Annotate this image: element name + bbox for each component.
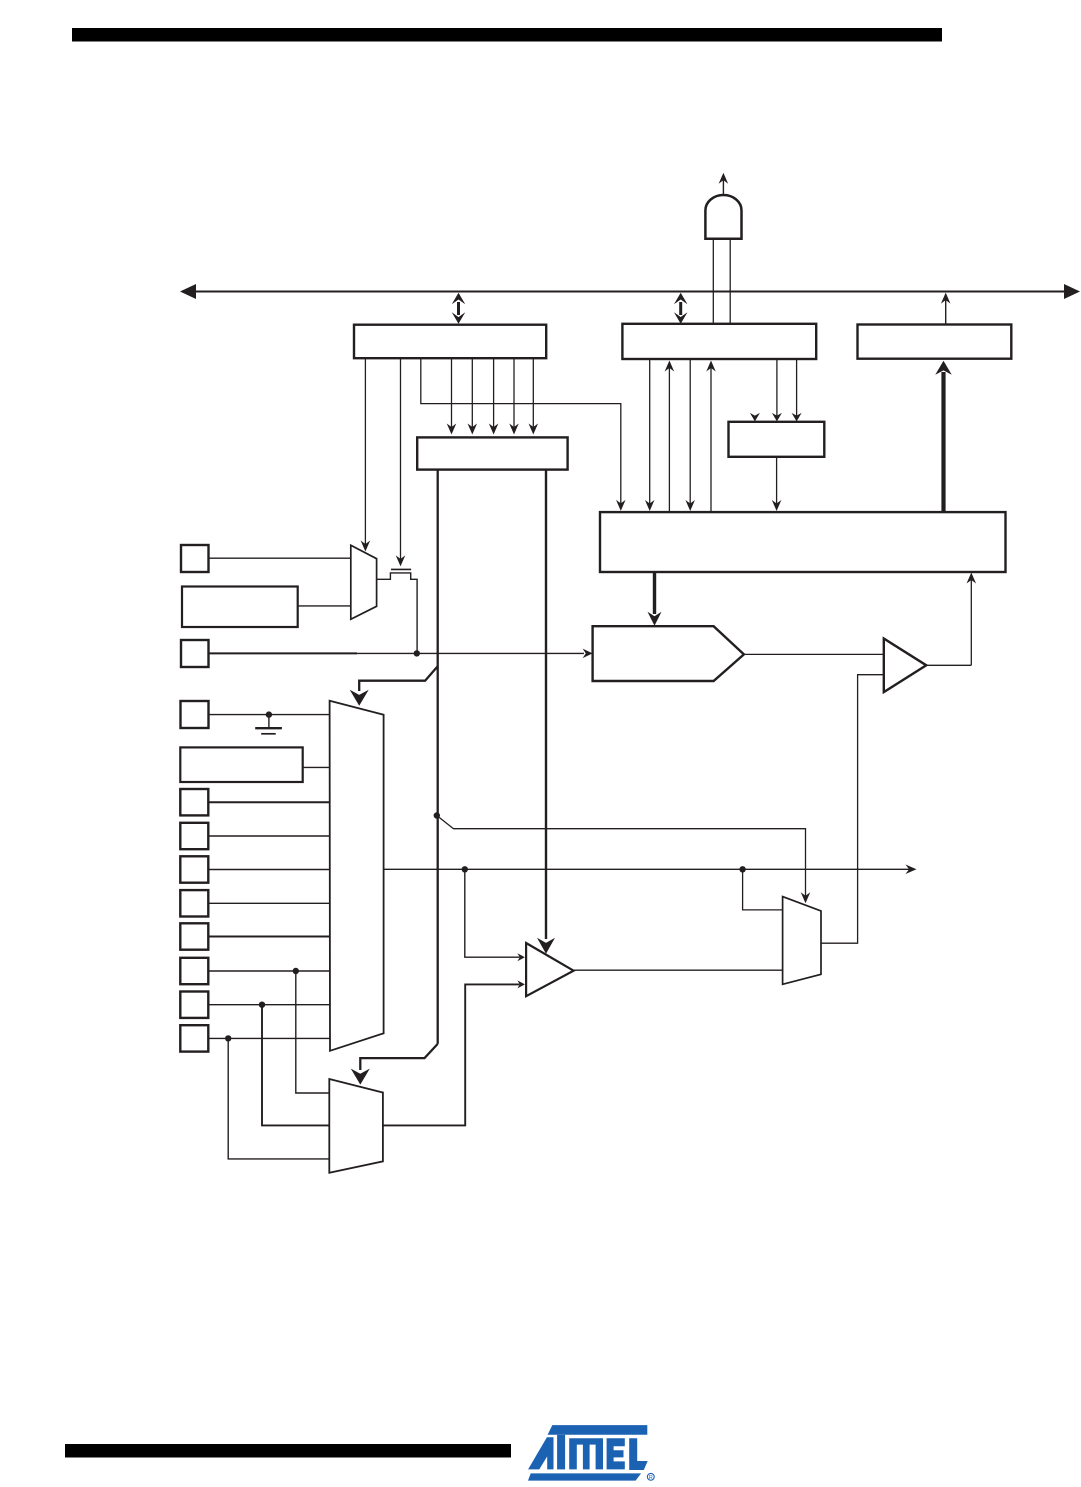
block bandgap reference [180,747,302,782]
mux negative input [329,1079,383,1173]
mux positive input [330,701,384,1051]
wire ADIF input to AND gate [712,239,714,324]
bus interface double arrow ADCSRA [674,293,688,324]
junction AGND ground [266,711,272,717]
wire mux output to gain amplifier positive input [465,869,525,961]
wire REFS1 ADMUX to reference mux [361,358,371,551]
wire gain selection to gain amplifier [537,470,555,954]
Atmel logo [528,1425,654,1481]
wire conversion result thick arrow to data register [935,361,952,512]
wire channel selection bus [437,470,439,1044]
op-amp gain amplifier [526,943,574,996]
ground symbol [255,715,282,734]
wire ADIF conversion logic to ADCSRA [706,361,716,513]
wire ADC1 to positive input mux [208,1004,329,1006]
wire ADC5 to positive input mux [208,869,329,871]
bus interface double arrow ADMUX [452,293,466,324]
wire bandgap reference to positive input mux [303,766,330,768]
wire AGND to positive input mux [209,714,330,716]
wire internal reference to reference mux [298,605,351,607]
wire select line to sample selection mux [437,816,810,904]
header rule bar [72,28,942,42]
pin AGND [181,701,209,728]
wire ADC multiplexer output [384,865,917,875]
wire ADPS ADCSRA to prescaler right [792,359,802,421]
wire channel selection branch to negative input mux [351,1044,438,1085]
pin ADC5 [180,856,208,882]
pin ADC7 [180,789,208,815]
svg-text:R: R [649,1475,653,1481]
wire ADSC ADCSRA to conversion logic [685,359,695,511]
mux single ended or differential selection [783,897,821,985]
wire ADPS ADCSRA to prescaler left [772,359,782,421]
junction AREF pass gate [414,650,420,656]
wire negative mux output to gain amplifier negative input [383,980,525,1125]
wire status conversion logic to ADCSRA [665,361,675,513]
junction mux output to gain amplifier [462,866,468,872]
wire MUX4 ADMUX to mux decoder [447,358,457,434]
wire REFS0 ADMUX to pass transistor gate [396,358,406,566]
pin ADC0 [180,1025,208,1051]
AND gate ADC conversion complete IRQ [705,195,741,239]
junction mux output to sample selection mux [739,866,745,872]
wire ADC data register to data bus [941,293,951,325]
pin ADC3 [180,923,208,949]
comparator [884,639,927,693]
block conversion logic [600,512,1006,572]
wire ADC2 to negative input mux [296,971,330,1093]
wire channel selection branch to positive input mux [350,666,438,706]
wire ADEN ADCSRA to conversion logic [645,359,655,511]
wire ADC1 to negative input mux [262,1005,329,1126]
wire conversion logic thick arrow to DAC [648,572,662,626]
junction ADC2 branch [293,968,299,974]
register box ADMUX (ADC multiplexer select) [354,325,546,359]
block prescaler [729,422,825,457]
wire 8-bit data bus [180,284,1080,299]
wire ADC3 to positive input mux [208,936,329,938]
wire comparator output [926,664,971,666]
wire comparator result into conversion logic [967,573,977,666]
wire gain amplifier output to sample selection mux [574,969,783,971]
pin AVCC [181,545,209,572]
wire ADIE input to AND gate [729,239,731,324]
transistor pass gate reference to AREF [377,569,418,653]
pin ADC6 [180,823,208,849]
wire MUX3 ADMUX to mux decoder [468,358,478,434]
wire AREF net to DAC reference input [209,649,593,659]
wire MUX0 ADMUX to mux decoder [529,358,539,434]
pin ADC2 [180,958,208,984]
wire sample mux to comparator minus input [821,675,884,944]
wire MUX1 ADMUX to mux decoder [509,358,519,434]
junction ADC1 branch [259,1002,265,1008]
wire ADC4 to positive input mux [208,902,329,904]
register box ADCSRA (ADC control and status) [622,324,816,359]
block internal 2.56V reference [182,587,298,628]
block 10-bit DAC sample and hold [593,626,744,681]
wire ADC7 to positive input mux [208,801,329,803]
junction channel selection to sample mux select [434,812,440,818]
wire AND gate output to IRQ [719,173,729,195]
pin AREF [181,640,209,667]
wire ADC2 to positive input mux [208,970,329,972]
wire mux output to sample selection mux [743,869,783,910]
wire DAC output to comparator plus input [744,653,884,655]
block mux decoder [417,437,567,469]
wire ADC0 to positive input mux [208,1037,329,1039]
wire prescaler clock to conversion logic [772,457,782,511]
junction ADC0 branch [225,1035,231,1041]
register box ADC data register ADCH ADCL [858,325,1012,359]
pin ADC4 [180,890,208,916]
wire AVCC to reference mux [209,557,351,559]
wire ADLAR ADMUX to conversion logic [421,358,626,511]
wire ADC6 to positive input mux [208,835,329,837]
wire MUX2 ADMUX to mux decoder [489,358,499,434]
pin ADC1 [180,992,208,1018]
mux reference selection [351,545,377,619]
wire ADC0 to negative input mux [228,1038,329,1159]
footer rule bar [65,1444,511,1458]
arrowhead CK input to prescaler [750,413,760,422]
